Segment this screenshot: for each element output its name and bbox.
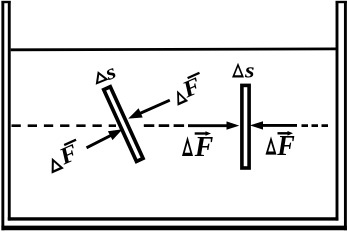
svg-text:F: F [194,131,213,163]
svg-text:F: F [276,131,294,162]
svg-text:s: s [244,58,255,83]
